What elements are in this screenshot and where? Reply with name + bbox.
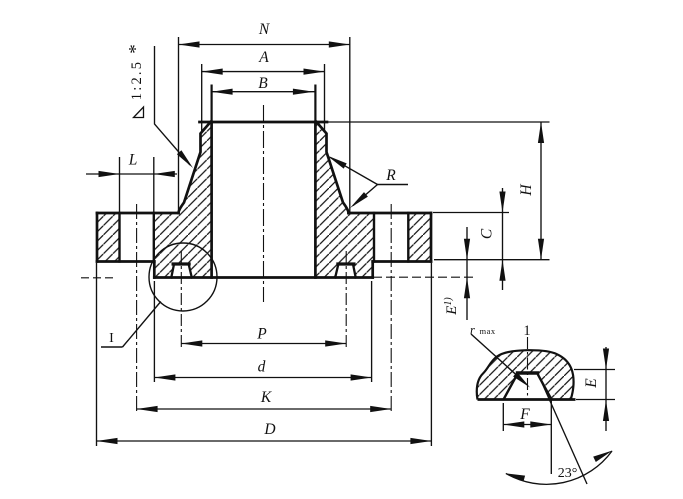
dimension D line — [97, 440, 432, 442]
dimension N extension lines — [178, 37, 180, 213]
svg-text:K: K — [260, 389, 272, 406]
bore wall right — [314, 122, 317, 278]
detail groove bottom bar — [516, 371, 539, 374]
slope leader line — [155, 46, 191, 165]
raised face phantom line left — [81, 277, 114, 279]
23 deg arc arrowheads — [505, 451, 613, 482]
dimension C line — [502, 188, 504, 290]
plate outer edge right — [430, 213, 433, 262]
groove centerline right / P extension — [345, 251, 347, 348]
svg-text:R: R — [385, 167, 396, 184]
radius R leader lower — [353, 185, 378, 206]
weld end face line — [200, 121, 328, 124]
dimension L line — [86, 173, 177, 175]
svg-text:P: P — [256, 326, 267, 343]
detail view hatched section — [477, 350, 574, 399]
dimension E arrows — [603, 349, 609, 422]
sealing groove right walls — [335, 265, 356, 277]
dimension C arrows — [499, 192, 505, 281]
raised face step left — [153, 262, 156, 278]
dimension P arrows — [181, 340, 346, 346]
detail label I underline — [101, 346, 123, 348]
plate bottom left — [97, 260, 154, 263]
svg-text:L: L — [128, 152, 138, 169]
detail label I leader — [123, 302, 161, 348]
dimension P line — [181, 343, 346, 345]
plate top left — [97, 212, 179, 215]
svg-text:N: N — [258, 21, 271, 38]
dimension N line — [179, 44, 350, 46]
radius R leader upper — [330, 157, 378, 184]
dimension H extension top — [328, 121, 550, 123]
dimension A extension lines — [201, 64, 203, 131]
dimension D extension lines — [96, 263, 98, 446]
dimension H line — [540, 122, 542, 260]
sealing groove left walls — [171, 265, 192, 277]
dimension E extension top — [574, 369, 615, 371]
hatched section right half — [315, 122, 431, 278]
svg-text:A: A — [258, 49, 269, 66]
dimension K line — [137, 408, 392, 410]
dimension B arrows — [212, 89, 314, 95]
dimension E line — [605, 347, 607, 431]
detail view broken outline — [477, 350, 574, 399]
flange axis centerline — [263, 105, 265, 302]
radius R underline — [378, 184, 409, 186]
bolt hole wall left-outer — [118, 213, 120, 262]
r max leader — [471, 334, 522, 380]
dimension d line — [154, 377, 371, 379]
dimension E1 arrows — [464, 239, 470, 299]
bolt hole wall right-inner — [373, 213, 375, 262]
bolt hole wall right-outer — [407, 213, 409, 262]
slope symbol triangle — [134, 107, 144, 118]
dimension B extension lines — [211, 85, 213, 123]
detail centerline — [527, 337, 529, 399]
dimension A arrows — [202, 69, 325, 75]
raised face phantom line right — [373, 276, 477, 278]
pipe outer wall and hub taper left — [179, 122, 211, 213]
svg-text:max: max — [480, 326, 496, 336]
detail face line — [478, 398, 576, 401]
dimension H extension bottom — [434, 259, 550, 261]
23 deg wall extension line — [538, 374, 587, 484]
svg-text:B: B — [258, 75, 268, 92]
23 deg vertical reference — [550, 400, 552, 475]
dimension N arrows — [179, 41, 350, 47]
dimension L arrows — [99, 171, 175, 177]
pipe outer wall and hub taper right — [317, 122, 349, 213]
svg-text:E: E — [583, 378, 600, 389]
dimension B line — [212, 91, 316, 93]
bore wall left — [210, 122, 213, 278]
svg-text:d: d — [258, 359, 266, 376]
hatched section left half — [97, 122, 212, 278]
detail groove walls — [504, 374, 552, 399]
svg-text:1:2.5: 1:2.5 — [129, 60, 145, 100]
23 deg arc — [506, 451, 612, 484]
bolt hole centerline left / K extension — [136, 204, 138, 413]
sealing groove right bottom bar — [336, 262, 355, 265]
plate top right — [349, 212, 432, 215]
svg-text:C: C — [479, 228, 496, 239]
detail circle I — [149, 243, 217, 311]
dimension H arrows — [538, 122, 544, 260]
dimension d arrows — [154, 374, 371, 380]
dimension K arrows — [137, 406, 392, 412]
dimension F arrows — [503, 421, 551, 427]
dimension F extension left — [502, 403, 504, 431]
dimension C extension top — [433, 212, 509, 214]
dimension E1 line — [466, 227, 468, 320]
slope leader arrowhead — [177, 150, 193, 168]
svg-text:H: H — [518, 184, 535, 197]
bolt hole centerline right / K extension — [390, 204, 392, 413]
bolt hole wall left-inner — [153, 213, 155, 262]
svg-text:F: F — [519, 406, 530, 423]
svg-text:*: * — [126, 44, 147, 54]
raised face step right — [371, 262, 374, 278]
dimension D arrows — [97, 438, 432, 444]
svg-text:23°: 23° — [558, 466, 578, 481]
dimension d extension lines — [153, 281, 155, 382]
flange sealing face bottom — [154, 276, 372, 279]
dimension E extension bottom — [576, 399, 615, 401]
dimension A line — [202, 71, 325, 73]
svg-text:1: 1 — [523, 323, 530, 339]
dimension L extension lines — [119, 157, 121, 213]
dimension F line — [503, 424, 551, 426]
groove centerline left / P extension — [180, 251, 182, 348]
r max leader arrowhead — [513, 372, 530, 388]
sealing groove left bottom bar — [172, 262, 191, 265]
plate outer edge left — [96, 213, 99, 262]
plate bottom right — [373, 260, 431, 263]
svg-text:D: D — [263, 421, 275, 438]
svg-text:I: I — [109, 331, 114, 346]
